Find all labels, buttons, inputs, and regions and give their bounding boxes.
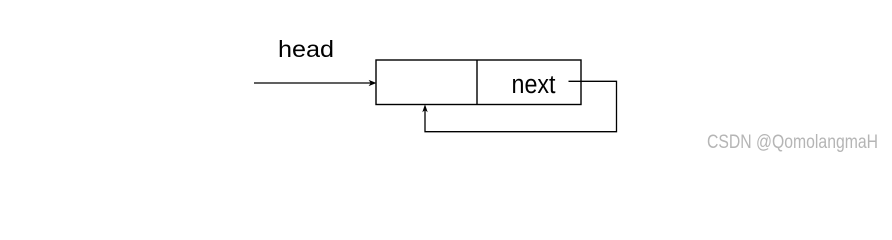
- svg-text:CSDN @QomolangmaH: CSDN @QomolangmaH: [707, 132, 878, 153]
- svg-text:head: head: [278, 36, 334, 62]
- svg-text:next: next: [512, 71, 556, 99]
- wire self-loop from next back to node: [422, 81, 616, 131]
- wire arrow from head to node: [254, 80, 377, 86]
- node divider between data and next cells: [476, 60, 478, 105]
- node box: [376, 60, 581, 105]
